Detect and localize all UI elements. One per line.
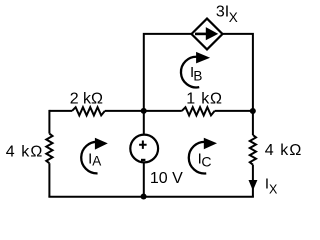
wire left outer bottom segment: [48, 163, 50, 196]
wire voltage source branch bottom: [143, 162, 145, 196]
resistor 2k zigzag: [72, 107, 105, 115]
minus sign: [141, 159, 145, 161]
wire left outer top segment: [48, 110, 50, 134]
mesh current IB arc: [181, 57, 199, 88]
wire middle horizontal left of 2k resistor: [49, 110, 72, 112]
wire bottom: [48, 196, 254, 198]
wire top-right segment and right vertical of top loop: [223, 34, 253, 111]
mesh current IC arc: [189, 142, 206, 174]
dependent current source 3Ix diamond: [192, 19, 223, 50]
svg-text:X: X: [229, 10, 238, 25]
node dot left junction: [141, 108, 147, 114]
svg-text:4 kΩ: 4 kΩ: [265, 142, 303, 159]
resistor 1k zigzag: [182, 107, 215, 115]
wire top loop left vertical and top-left segment: [144, 34, 192, 111]
wire right of 1k resistor: [215, 110, 253, 112]
svg-text:B: B: [193, 68, 202, 83]
wire voltage source branch top: [143, 111, 145, 135]
resistor 4k right zigzag: [250, 135, 256, 165]
plus sign: [139, 141, 147, 149]
svg-text:X: X: [269, 183, 278, 197]
svg-text:2 kΩ: 2 kΩ: [70, 91, 103, 108]
dependent source arrow head: [206, 27, 218, 40]
wire right outer top segment: [252, 111, 254, 135]
mesh current IC arrow head: [204, 138, 217, 149]
node dot bottom junction: [141, 193, 147, 199]
svg-text:C: C: [201, 153, 211, 169]
mesh current IB arrow head: [196, 52, 210, 64]
svg-text:1 kΩ: 1 kΩ: [186, 91, 223, 108]
svg-text:4 kΩ: 4 kΩ: [6, 143, 44, 160]
current arrow Ix head: [249, 180, 258, 191]
wire between 2k and 1k resistors: [105, 110, 182, 112]
node dot right junction: [250, 108, 256, 114]
wire right outer bottom segment: [252, 165, 254, 197]
svg-text:A: A: [92, 154, 101, 169]
svg-text:3I: 3I: [216, 4, 229, 21]
voltage source circle: [130, 135, 158, 163]
dependent source arrow shaft: [195, 33, 208, 36]
svg-text:10 V: 10 V: [150, 170, 183, 187]
mesh current IA arc: [81, 142, 98, 174]
mesh current IA arrow head: [95, 138, 108, 150]
resistor 4k left zigzag: [46, 134, 52, 164]
